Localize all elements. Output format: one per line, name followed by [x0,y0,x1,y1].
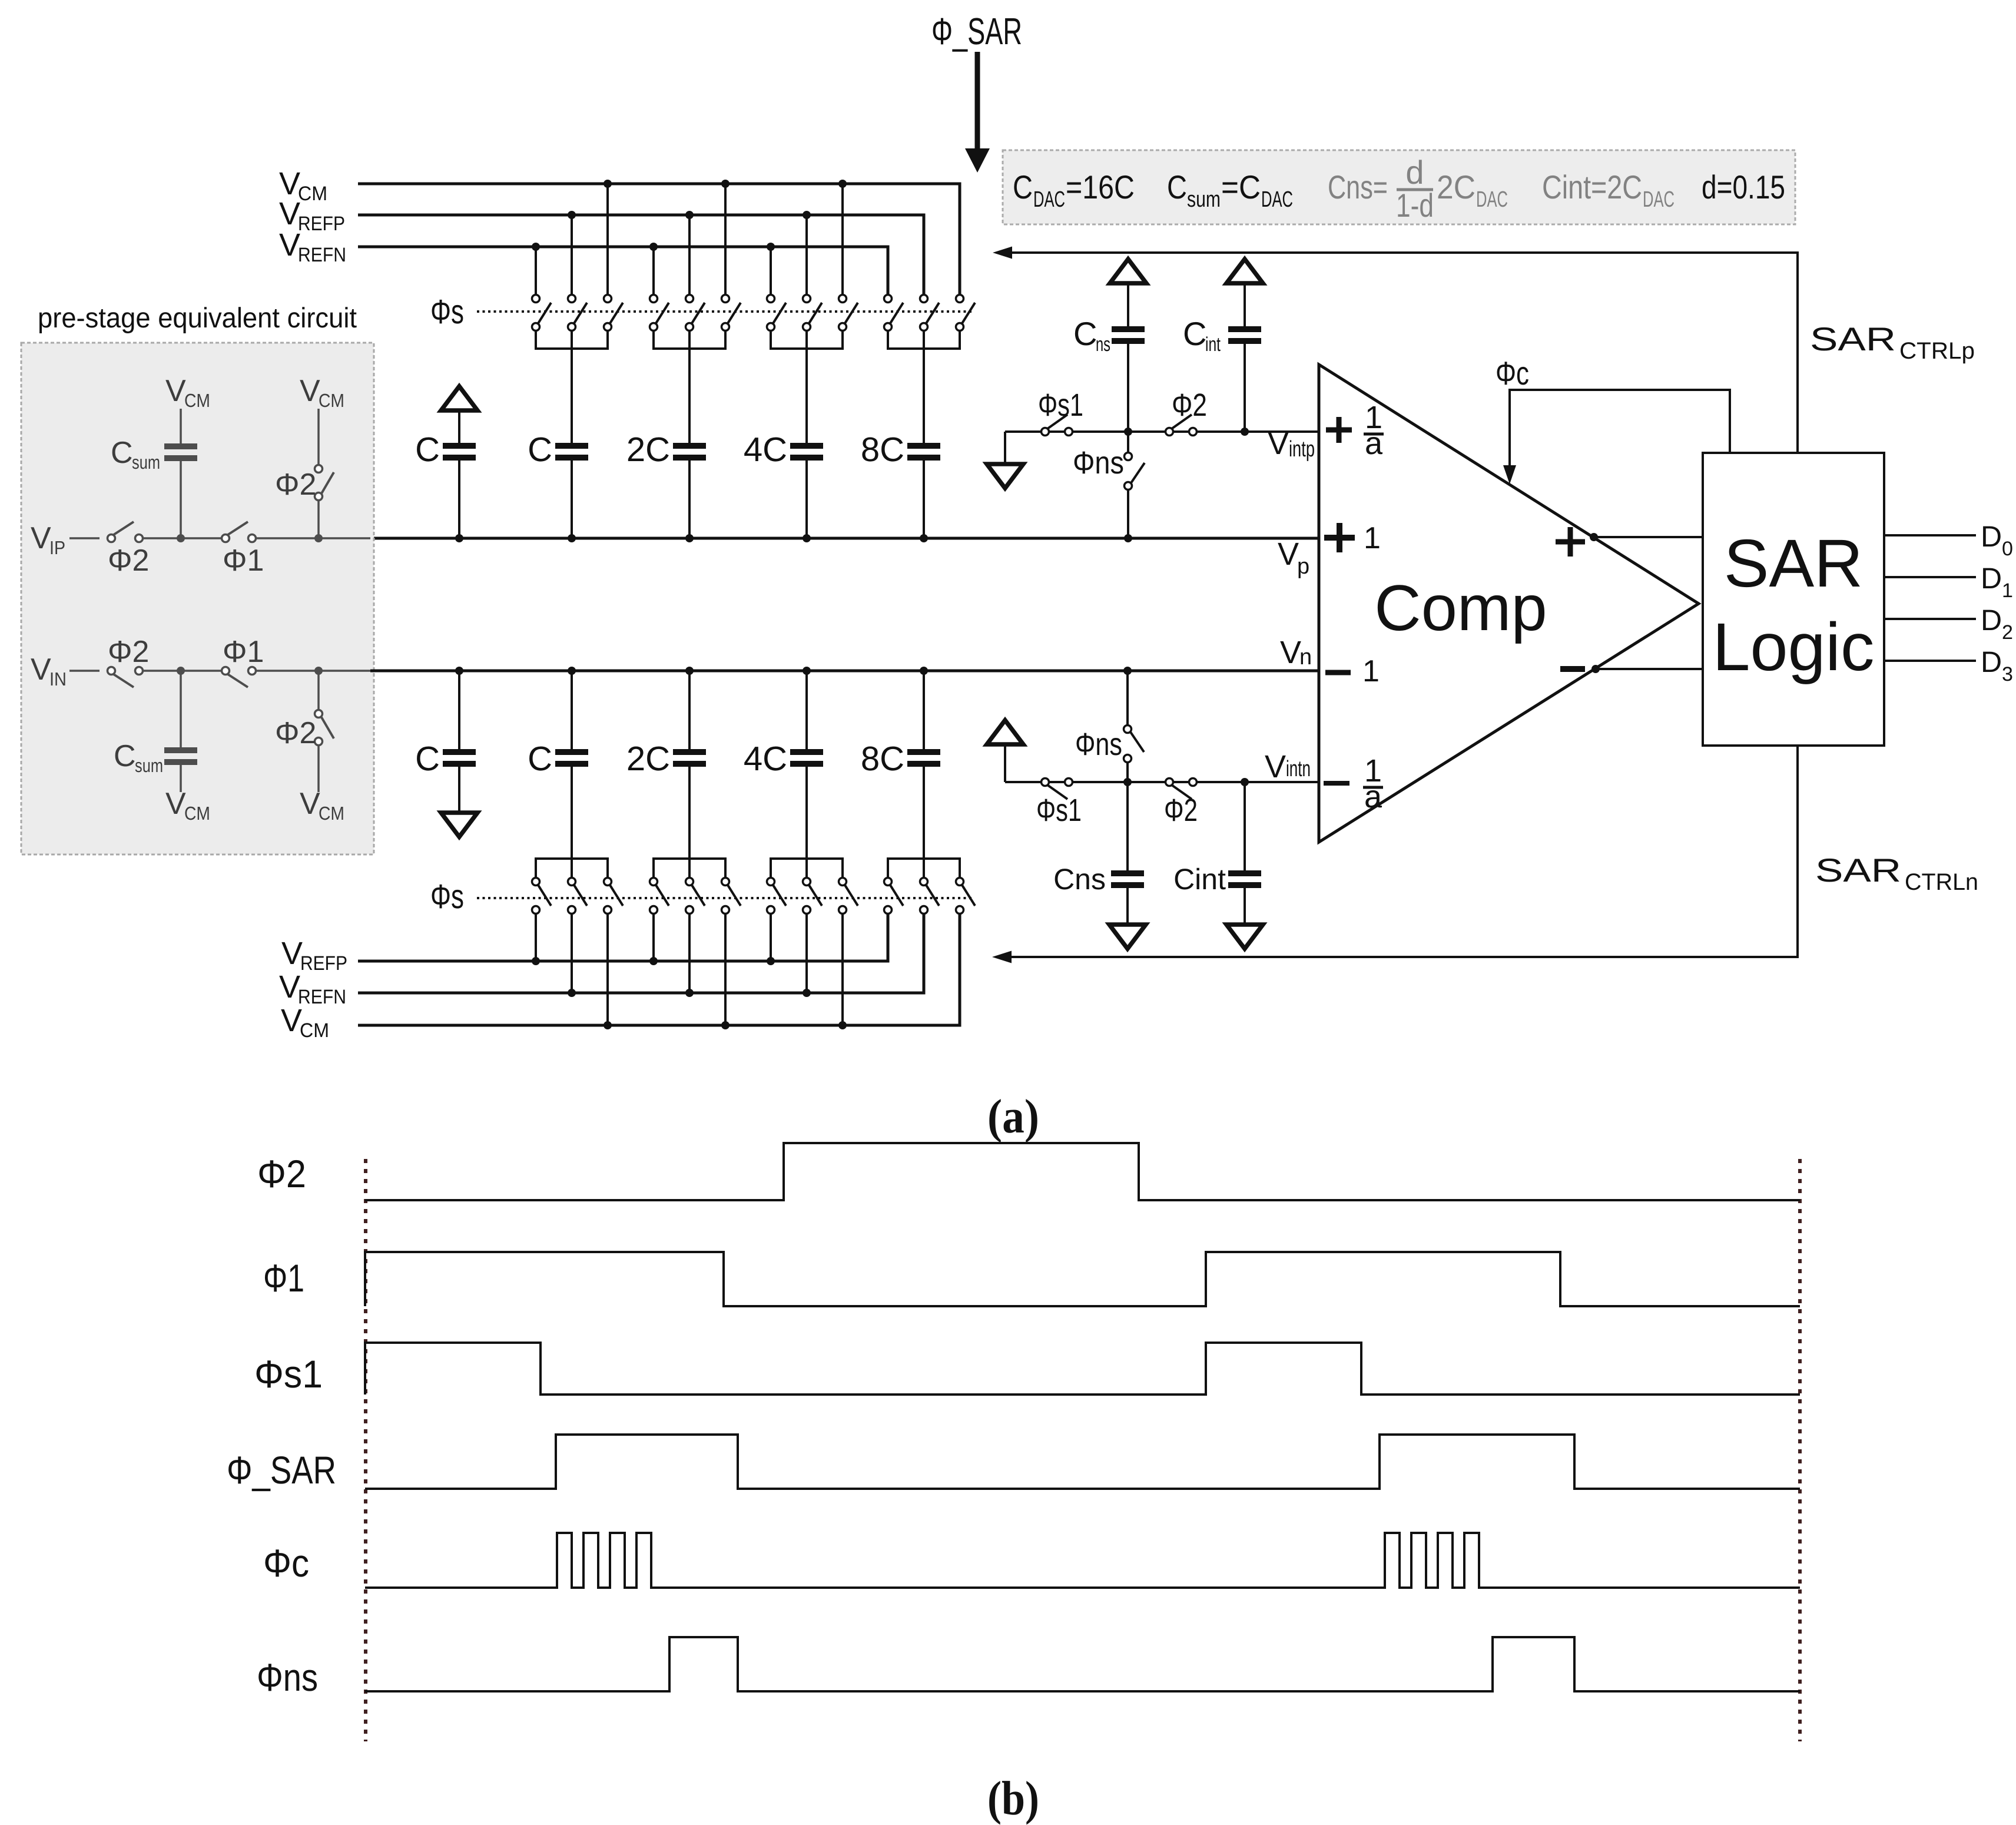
svg-text:a: a [1364,779,1382,814]
switch S4b group4 [920,295,940,331]
wire VREFP top bus [358,215,924,294]
wire Vintp rail [1005,430,1319,433]
svg-text:V: V [279,196,300,231]
wire VREFN top bus [358,247,888,294]
svg-text:Φ_SAR: Φ_SAR [227,1448,336,1492]
wire cap C2 bottom column [688,671,691,878]
node feedback arrowhead left (bottom) [992,951,1012,963]
svg-text:C: C [415,740,440,778]
switch S4a group4 [884,295,904,331]
wire stubs bottom switches to buses group2 [654,914,725,1025]
switch S1c group1 [604,295,624,331]
wire Vn main rail [370,670,1319,673]
svg-text:C: C [114,739,136,773]
wire D3 output [1884,660,1976,662]
svg-text:1: 1 [2002,579,2013,602]
switch S3c group3 [839,295,858,331]
svg-text:Φ2: Φ2 [1164,793,1198,828]
svg-text:sum: sum [1187,187,1221,212]
timing diagram left dotted axis [364,1159,367,1741]
switch S6a group2 bottom [650,878,669,914]
svg-text:REFN: REFN [298,244,346,266]
node VREFN bottom junctions [568,989,576,997]
wire D2 output [1884,618,1976,620]
wire VCM top bus [358,184,960,294]
label comparator input plus 1/a [1326,417,1352,443]
wire cap C1 bottom column [571,671,573,878]
svg-text:D: D [1981,604,2002,637]
svg-text:C: C [528,740,552,778]
switch S2a group2 [650,295,669,331]
node Vp junction Phi-ns [1124,534,1132,542]
node VREFN bus junctions [532,243,540,251]
svg-text:2C: 2C [1437,168,1475,206]
switch S7c group3 bottom [839,878,858,914]
ground below Phi-s1 top [987,464,1023,488]
label comparator input plus 1 [1324,523,1355,552]
ground below Cns bottom [1109,925,1146,949]
wire VIP sw to junction [143,537,221,539]
svg-text:REFP: REFP [298,213,345,235]
svg-text:Comp: Comp [1374,572,1547,644]
svg-text:4C: 4C [744,740,787,778]
svg-text:1-d: 1-d [1396,187,1434,224]
svg-text:8C: 8C [861,430,904,469]
svg-text:Φ1: Φ1 [223,544,264,578]
svg-text:8C: 8C [861,740,904,778]
wire Csum bottom column [180,671,182,792]
svg-text:d: d [1405,154,1424,191]
svg-text:Φs: Φs [430,293,464,331]
switch S2b group2 [686,295,705,331]
capacitor C4 bottom (8C) [907,749,940,767]
capacitor Cint top [1228,326,1261,344]
svg-text:Φ2: Φ2 [275,716,316,750]
svg-text:1: 1 [1362,654,1380,688]
wire Vintp left bend to ground [1004,432,1006,462]
svg-text:CM: CM [319,803,344,824]
svg-text:CM: CM [184,390,210,411]
wire supply to Cint top [1244,285,1246,326]
svg-text:D: D [1981,562,2002,595]
node output minus junction [1591,665,1600,673]
svg-text:(a): (a) [987,1089,1039,1143]
svg-text:C: C [528,430,552,469]
node VIN Csum junction [177,667,185,675]
wire group1 bottom merge bracket [536,859,608,878]
capacitor C3 bottom (4C) [790,749,823,767]
svg-text:Φ2: Φ2 [1172,387,1207,423]
supply arrow above Phi-s1 bottom [987,720,1023,744]
wire Cns bottom column [1126,782,1129,923]
svg-text:SAR: SAR [1724,526,1863,601]
switch S6b group2 bottom [686,878,705,914]
wire D0 output [1884,534,1976,536]
svg-text:2C: 2C [626,430,670,469]
wire VIN input [69,670,100,672]
node VIN right Phi2 junction [314,667,323,675]
label comparator output minus [1560,666,1585,672]
wire group2 merge bracket [654,331,725,443]
node feedback arrowhead left (top) [993,247,1012,259]
switch S5b group1 bottom [568,878,588,914]
node VCM bus junctions [604,180,612,188]
formula box [1003,150,1795,224]
capacitor C3 top (4C) [790,443,823,461]
svg-text:CM: CM [184,803,210,824]
capacitor Csum bottom [164,747,197,765]
waveform Phi_SAR [365,1435,1800,1489]
capacitor Cint bottom [1228,870,1261,888]
wire Phi-ns top to Vp [1127,490,1129,538]
wire VIP input [69,537,100,539]
node Vp junctions with caps [455,534,463,542]
capacitor C2 top (2C) [673,443,706,461]
svg-text:sum: sum [132,452,160,473]
svg-text:CTRLn: CTRLn [1905,869,1978,895]
svg-text:V: V [165,787,186,821]
switch S8c group4 bottom [956,878,976,914]
node Phi_SAR arrowhead [965,148,990,173]
svg-text:Φs: Φs [430,877,464,916]
node VREFP bus junctions [568,211,576,219]
capacitor Cns top [1112,326,1145,344]
wire group1 merge bracket [536,331,608,443]
svg-text:CM: CM [319,390,344,411]
capacitor C0 top (sampling cap C) [443,443,476,461]
svg-text:V: V [300,374,320,408]
wire cap C1 to Vp [571,461,573,538]
svg-text:4C: 4C [744,430,787,469]
svg-text:Φs1: Φs1 [1038,387,1083,423]
wire VCM down to Phi2 vertical switch top [317,409,320,465]
svg-text:Φns: Φns [1073,445,1124,481]
node Vintn junction Cns [1123,778,1132,786]
wire group4 bottom merge bracket [888,859,960,878]
wire Phi2 vertical to VIP rail [317,501,320,538]
svg-text:=C: =C [1221,168,1261,206]
svg-text:V: V [165,374,186,408]
svg-text:C: C [1183,315,1206,352]
node VREFP bottom junctions [532,957,540,965]
switch S6c group2 bottom [722,878,741,914]
svg-text:DAC: DAC [1261,187,1293,212]
svg-text:CM: CM [298,183,327,205]
svg-text:V: V [279,227,300,263]
waveform Phi-s1 [365,1343,1800,1395]
waveform Phi1 [365,1252,1800,1306]
wire Phi2 vertical bottom to VCM [317,746,320,792]
supply arrow above Cns top [1110,259,1146,283]
wire Phi-ns bottom to Vintn [1126,763,1129,782]
svg-text:Φ1: Φ1 [223,635,264,669]
svg-text:Φ_SAR: Φ_SAR [931,10,1022,52]
svg-text:SAR: SAR [1815,852,1901,889]
timing diagram right dotted axis [1798,1159,1802,1741]
svg-text:n: n [1299,645,1312,670]
svg-text:ns: ns [1096,333,1110,356]
svg-text:Φns: Φns [257,1655,318,1699]
svg-text:IN: IN [49,668,67,690]
svg-text:intp: intp [1289,437,1315,462]
waveform Phi-ns [365,1637,1800,1691]
svg-text:C: C [1073,315,1097,352]
wire VIP sw2 to box edge [256,537,370,539]
svg-text:Φs1: Φs1 [254,1352,323,1396]
switch S4c group4 [956,295,976,331]
svg-text:V: V [1265,749,1286,784]
capacitor Csum top [164,443,197,461]
svg-text:Logic: Logic [1713,610,1875,685]
wire VREFP bottom bus [358,914,888,961]
svg-text:V: V [31,521,51,555]
waveform Phi-c with pulse bursts [365,1533,1800,1588]
svg-text:REFP: REFP [300,952,347,975]
wire cap C3 bottom column [805,671,808,878]
wire D1 output [1884,576,1976,578]
wire group2 bottom merge bracket [654,859,725,878]
wire Vp main rail [370,537,1319,540]
svg-text:IP: IP [49,537,65,558]
wire stubs bus to top switches group3 [771,184,843,294]
svg-text:C: C [1167,168,1187,206]
svg-text:Φ2: Φ2 [108,635,149,669]
wire group3 merge bracket [771,331,843,443]
svg-text:sum: sum [135,755,163,776]
svg-text:Φns: Φns [1075,727,1122,762]
switch S1a group1 [532,295,552,331]
wire group3 bottom merge bracket [771,859,843,878]
switch S8b group4 bottom [920,878,940,914]
svg-text:REFN: REFN [298,986,346,1008]
svg-text:SAR: SAR [1810,320,1896,357]
wire cap C3 to Vp [805,461,808,538]
svg-text:DAC: DAC [1476,187,1508,212]
svg-text:V: V [1280,635,1301,670]
svg-text:Cint=2C: Cint=2C [1542,168,1642,206]
capacitor C1 top (C) [555,443,588,461]
switch S7b group3 bottom [803,878,823,914]
svg-text:Φ1: Φ1 [263,1256,304,1300]
capacitor C1 bottom (C) [555,749,588,767]
svg-text:V: V [1278,536,1299,572]
wire supply to cap C0 top [458,412,460,443]
svg-text:V: V [281,936,303,971]
node VIP Csum junction [177,534,185,542]
wire cap C0 to Vp [458,461,460,538]
svg-text:0: 0 [2002,538,2013,560]
supply arrow above Cint top [1226,259,1263,283]
svg-text:3: 3 [2002,663,2013,685]
op-amp comparator triangle [1319,365,1699,842]
svg-text:DAC: DAC [1643,187,1675,212]
switch Phi2 on VIP [108,522,143,542]
svg-text:CM: CM [300,1019,329,1042]
svg-text:int: int [1205,333,1221,356]
node VIP right Phi2 junction [314,534,323,542]
svg-text:pre-stage equivalent circuit: pre-stage equivalent circuit [38,303,357,334]
supply arrow above first cap C top [441,386,478,410]
node Vn junction Phi-ns bottom [1123,667,1132,675]
wire Cint bottom column [1244,782,1246,923]
switch S5a group1 bottom [532,878,552,914]
svg-text:Φ2: Φ2 [275,468,316,502]
switch Phi-ns top vertical [1127,432,1129,452]
fraction bar [1397,188,1433,191]
capacitor C4 top (8C) [907,443,940,461]
switch S3a group3 [767,295,787,331]
switch Phi-s1 bottom [1042,779,1073,800]
label comparator input minus 1/a [1324,781,1349,786]
svg-text:Φ2: Φ2 [257,1152,306,1195]
switch S3b group3 [803,295,823,331]
svg-text:D: D [1981,645,2002,678]
wire SAR CTRLp feedback line [996,253,1798,453]
wire stubs bottom switches to buses group1 [536,914,608,1025]
wire Csum top column [180,409,182,538]
ground below C0 bottom [441,813,478,837]
svg-text:2C: 2C [626,740,670,778]
switch S7a group3 bottom [767,878,787,914]
wire Phi-s bottom dotted control line [477,897,974,899]
wire stubs bus to top switches group1 [536,184,608,294]
wire comparator plus output to SAR logic [1594,536,1703,538]
svg-text:CTRLp: CTRLp [1899,338,1975,364]
svg-text:1: 1 [1364,521,1381,555]
svg-text:Φc: Φc [263,1541,309,1585]
switch S5c group1 bottom [604,878,624,914]
node VCM bottom junctions [604,1021,612,1029]
wire comparator minus output to SAR logic [1596,668,1703,670]
switch Phi-ns bottom vertical [1126,671,1129,726]
wire Cns to Vintp [1127,344,1129,432]
switch S1b group1 [568,295,588,331]
wire group4 merge bracket [888,331,960,443]
switch Phi2 top (Vintp) [1166,415,1197,436]
switch Phi-s1 top [1042,415,1073,436]
pre-stage box [21,343,374,854]
node Vintn junction Cint [1241,778,1249,786]
wire stubs bus to top switches group2 [654,184,725,294]
wire Vintn rail [1005,781,1319,783]
svg-text:intn: intn [1286,757,1311,781]
svg-text:C: C [111,436,133,470]
svg-text:Cns=: Cns= [1328,168,1388,206]
svg-text:V: V [1268,426,1289,461]
label comparator output plus [1556,527,1585,557]
node output plus junction [1590,533,1598,541]
svg-text:DAC: DAC [1033,187,1065,212]
wire Cint to Vintp [1244,344,1246,432]
svg-text:2: 2 [2002,621,2013,644]
SAR Logic box U2 [1703,453,1884,746]
switch Phi2 on VIN [108,667,143,688]
svg-text:C: C [1013,168,1033,206]
capacitor Cns bottom [1111,870,1144,888]
svg-text:Φs1: Φs1 [1036,793,1082,828]
svg-text:Cint: Cint [1173,863,1226,896]
switch Phi2 vertical (top half) [315,465,334,501]
switch Phi2 bottom (Vintn) [1166,779,1197,800]
svg-text:V: V [281,1003,302,1038]
wire Phi_SAR arrow shaft [975,52,980,151]
svg-text:=16C: =16C [1066,168,1135,206]
svg-text:Φ2: Φ2 [108,544,149,578]
svg-text:Cns: Cns [1053,863,1106,896]
svg-text:(b): (b) [987,1771,1039,1825]
svg-text:p: p [1297,554,1309,579]
wire Phi-c feedback from SAR logic [1510,390,1730,469]
svg-text:D: D [1981,520,2002,553]
wire Phi-s top dotted control line [477,310,974,313]
capacitor C0 bottom (C) [443,749,476,767]
switch S2c group2 [722,295,741,331]
switch Phi1 on VIP [222,522,256,542]
wire supply bend to Vintn [1004,746,1006,782]
switch Phi2 vertical (bottom half) [315,710,334,746]
wire SAR CTRLn feedback line [996,746,1798,957]
wire cap C4 bottom column [923,671,925,878]
svg-text:d=0.15: d=0.15 [1702,168,1785,206]
svg-text:C: C [415,430,440,469]
wire VIN sw to junction [143,670,221,672]
wire supply to Cns top [1127,285,1129,326]
wire cap C4 to Vp [923,461,925,538]
wire VREFN bottom bus [358,914,924,993]
wire cap C0 bottom column [458,671,460,811]
capacitor C2 bottom (2C) [673,749,706,767]
wire VCM bottom bus [358,914,960,1025]
waveform Phi2 [365,1143,1800,1200]
svg-text:V: V [31,653,51,687]
node Phi-c arrowhead [1503,465,1516,484]
wire stubs bottom switches to buses group3 [771,914,843,1025]
label comparator input minus 1 [1325,670,1351,675]
node Vintp junction Cint [1241,428,1249,436]
svg-text:V: V [279,969,300,1005]
svg-text:Φc: Φc [1496,355,1529,392]
switch Phi1 on VIN [222,667,256,688]
wire VIN sw2 to box edge [256,670,370,672]
wire cap C2 to Vp [688,461,691,538]
svg-text:V: V [300,787,320,821]
switch S8a group4 bottom [884,878,904,914]
wire VIN junction down to Phi2 vertical switch [317,671,320,710]
node Vn junctions with caps [455,667,463,675]
svg-text:a: a [1365,426,1383,461]
ground below Cint bottom [1226,925,1263,949]
node Vintp junction Cns [1124,428,1132,436]
